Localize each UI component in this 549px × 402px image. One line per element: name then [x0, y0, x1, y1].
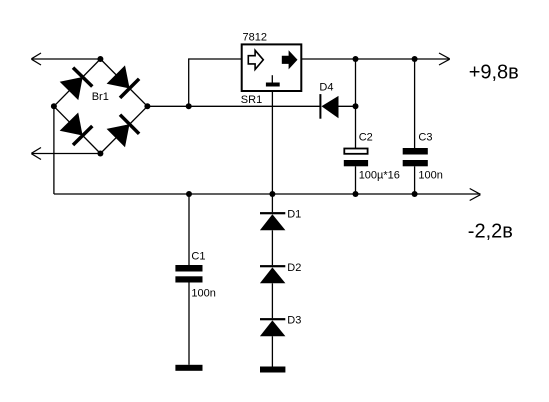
- svg-text:-2,2в: -2,2в: [468, 220, 513, 242]
- svg-text:100µ*16: 100µ*16: [359, 169, 400, 181]
- svg-text:D2: D2: [287, 262, 301, 274]
- svg-text:D3: D3: [287, 315, 301, 327]
- svg-text:7812: 7812: [243, 32, 267, 44]
- svg-text:100n: 100n: [191, 287, 215, 299]
- svg-text:D1: D1: [287, 209, 301, 221]
- svg-text:SR1: SR1: [241, 94, 262, 106]
- svg-text:100n: 100n: [418, 169, 442, 181]
- svg-text:C1: C1: [191, 250, 205, 262]
- svg-text:D4: D4: [319, 82, 333, 94]
- svg-text:C2: C2: [359, 132, 373, 144]
- svg-text:Br1: Br1: [92, 91, 109, 103]
- svg-text:C3: C3: [418, 132, 432, 144]
- svg-text:+9,8в: +9,8в: [469, 61, 519, 83]
